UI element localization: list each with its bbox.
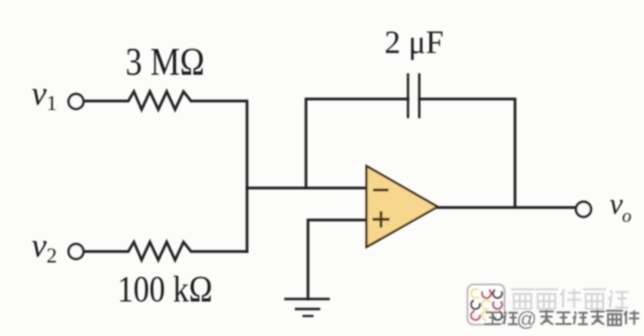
svg-text:2 μF: 2 μF [385, 25, 444, 61]
svg-text:v: v [32, 76, 48, 113]
svg-text:@: @ [517, 309, 537, 331]
svg-text:2: 2 [47, 244, 58, 268]
svg-text:100 kΩ: 100 kΩ [118, 270, 213, 311]
svg-text:o: o [622, 206, 632, 227]
svg-text:3 MΩ: 3 MΩ [126, 41, 205, 84]
svg-text:v: v [32, 228, 48, 265]
svg-text:1: 1 [47, 91, 58, 115]
